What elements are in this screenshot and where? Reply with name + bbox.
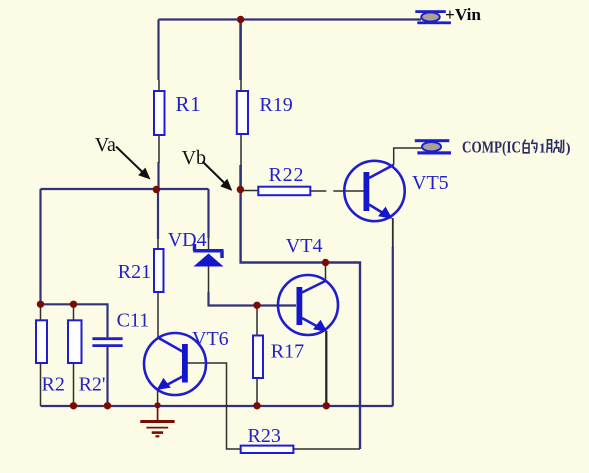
svg-text:R17: R17 <box>271 341 304 363</box>
svg-text:R1: R1 <box>176 92 202 116</box>
svg-text:VT6: VT6 <box>192 328 229 350</box>
svg-text:R22: R22 <box>269 164 305 186</box>
svg-text:R19: R19 <box>259 94 292 116</box>
svg-text:Vb: Vb <box>182 147 206 169</box>
svg-text:R23: R23 <box>248 425 281 447</box>
svg-text:Va: Va <box>95 134 116 156</box>
svg-text:C11: C11 <box>117 310 150 332</box>
svg-text:R2': R2' <box>79 374 106 396</box>
svg-text:VT4: VT4 <box>286 235 323 257</box>
svg-text:1: 1 <box>539 142 546 157</box>
svg-text:R21: R21 <box>118 261 151 283</box>
svg-text:): ) <box>566 141 571 157</box>
svg-text:+Vin: +Vin <box>445 5 481 24</box>
svg-text:R2: R2 <box>42 374 65 396</box>
svg-text:COMP(IC: COMP(IC <box>462 138 521 157</box>
svg-text:VT5: VT5 <box>412 172 449 194</box>
svg-text:VD4: VD4 <box>168 229 207 251</box>
